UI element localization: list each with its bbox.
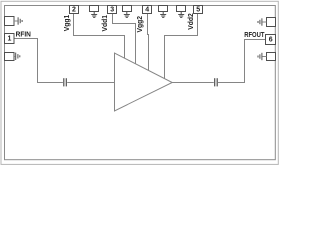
wire pin2 Vgg1 net bbox=[74, 14, 125, 60]
wire RFIN net bbox=[14, 39, 63, 83]
svg-text:Vgg1: Vgg1 bbox=[64, 15, 71, 32]
op-amp U1 (amplifier triangle) bbox=[115, 53, 173, 111]
schematic frame bbox=[5, 6, 276, 160]
svg-text:2: 2 bbox=[72, 6, 76, 13]
pin 2 box bbox=[70, 6, 79, 14]
wire to ground bbox=[14, 20, 18, 22]
pin 3 box bbox=[108, 6, 117, 14]
pin 6 box bbox=[266, 35, 276, 45]
wire to ground bbox=[262, 56, 266, 58]
wire to ground bbox=[262, 21, 266, 23]
ground pad B (top) bbox=[123, 6, 132, 12]
ground symbol C bbox=[160, 12, 166, 18]
ground pad D (top) bbox=[177, 6, 186, 12]
ground pad left top bbox=[5, 17, 15, 26]
svg-text:3: 3 bbox=[110, 6, 114, 13]
ground pad left bottom bbox=[5, 53, 15, 61]
svg-text:6: 6 bbox=[269, 36, 273, 43]
svg-text:Vdd1: Vdd1 bbox=[102, 15, 109, 32]
wire pin4 Vgg2 net bbox=[148, 14, 149, 72]
ground symbol B bbox=[124, 12, 130, 18]
ground pad C (top) bbox=[159, 6, 168, 12]
svg-text:RFOUT: RFOUT bbox=[244, 30, 265, 39]
wire pin3 Vdd1 net bbox=[113, 14, 136, 65]
ground symbol (sideways left) bbox=[258, 53, 262, 60]
ground pad A (top) bbox=[90, 6, 99, 12]
outer border bbox=[1, 1, 278, 164]
wire RFOUT net bbox=[218, 40, 266, 83]
pin 4 box bbox=[143, 6, 152, 14]
ground symbol (sideways left) bbox=[258, 18, 262, 25]
svg-text:Vgg2: Vgg2 bbox=[137, 16, 144, 33]
pin 1 box bbox=[5, 34, 15, 44]
wire to ground bbox=[14, 56, 15, 58]
pin 5 box bbox=[194, 6, 203, 14]
capacitor C1 (input DC block) bbox=[63, 78, 65, 86]
ground pad right bottom bbox=[267, 53, 276, 61]
ground symbol D bbox=[178, 12, 184, 18]
ground symbol (sideways right) bbox=[18, 17, 22, 24]
wire amp output bbox=[172, 82, 214, 84]
ground symbol A bbox=[91, 12, 97, 18]
svg-text:RFIN: RFIN bbox=[16, 30, 31, 39]
capacitor C2 (output DC block) bbox=[214, 78, 216, 86]
svg-text:Vdd2: Vdd2 bbox=[188, 13, 195, 30]
wire C1 to amp bbox=[67, 82, 115, 84]
wire pin5 Vdd2 net bbox=[165, 14, 198, 80]
ground pad right top bbox=[267, 18, 276, 27]
svg-text:4: 4 bbox=[145, 6, 149, 13]
svg-text:5: 5 bbox=[196, 6, 200, 13]
ground symbol (sideways right) bbox=[16, 53, 20, 60]
svg-text:1: 1 bbox=[7, 36, 11, 43]
